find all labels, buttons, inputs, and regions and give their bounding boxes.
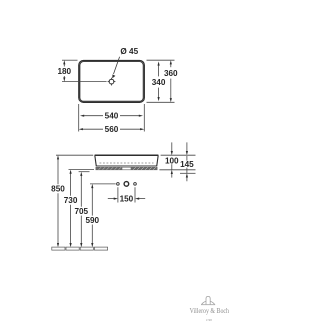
dimension 150 xyxy=(108,187,145,202)
floor plate under 590 xyxy=(94,247,107,250)
svg-text:1748: 1748 xyxy=(206,318,212,322)
plan view outer rim 560x360 xyxy=(79,61,145,103)
front view right side xyxy=(157,155,159,166)
extension line mounting plane (705) xyxy=(79,171,90,173)
dimension 360 xyxy=(170,63,172,98)
floor plate under 705 xyxy=(80,247,93,250)
dimension 560 xyxy=(82,128,141,130)
extension lines below plan xyxy=(79,104,145,132)
extension line drain level (590) xyxy=(90,183,116,185)
extension lines right of front view xyxy=(159,155,195,173)
dimension 540 xyxy=(83,115,140,117)
extension line pad bottom (730) xyxy=(69,169,95,171)
svg-text:150: 150 xyxy=(120,195,134,204)
hidden interior line xyxy=(100,162,154,164)
svg-text:Villeroy & Boch: Villeroy & Boch xyxy=(190,307,230,315)
dimension 145 xyxy=(186,142,188,181)
floor plate under 730 xyxy=(66,247,79,250)
extension lines right of plan xyxy=(147,60,175,102)
dimension 180 (left of plan) xyxy=(62,60,107,81)
svg-text:360: 360 xyxy=(164,69,178,78)
svg-text:145: 145 xyxy=(180,160,194,169)
floor plate under 850 xyxy=(52,247,65,250)
tap hole Ø45 xyxy=(108,78,116,86)
svg-text:540: 540 xyxy=(105,112,119,121)
svg-text:850: 850 xyxy=(51,185,65,194)
svg-text:340: 340 xyxy=(152,78,166,87)
extension line rim level (left) xyxy=(56,154,93,156)
wall fitting drain hole xyxy=(124,182,129,187)
mounting pad strip xyxy=(96,167,157,170)
front view bottom xyxy=(96,165,156,167)
svg-text:100: 100 xyxy=(165,156,179,165)
svg-text:590: 590 xyxy=(85,216,99,225)
Villeroy & Boch logo icon xyxy=(201,296,215,304)
svg-text:560: 560 xyxy=(105,125,119,134)
svg-text:730: 730 xyxy=(64,196,78,205)
dimension 730 xyxy=(70,173,72,244)
plan view inner rim 540x340 xyxy=(80,62,143,102)
front view rim top xyxy=(95,154,159,156)
leader line for Ø45 xyxy=(114,57,120,74)
front view left side xyxy=(95,155,97,166)
dimension 705 xyxy=(80,175,82,244)
dimension 100 xyxy=(171,142,173,177)
svg-text:Ø 45: Ø 45 xyxy=(120,47,138,56)
dimension 340 xyxy=(158,65,160,98)
wall fitting small hole right xyxy=(134,183,137,186)
svg-text:180: 180 xyxy=(57,67,71,76)
dimension 850 xyxy=(57,158,59,244)
dimension 590 xyxy=(91,187,93,244)
wall fitting small hole left xyxy=(117,183,120,186)
svg-text:705: 705 xyxy=(74,207,88,216)
